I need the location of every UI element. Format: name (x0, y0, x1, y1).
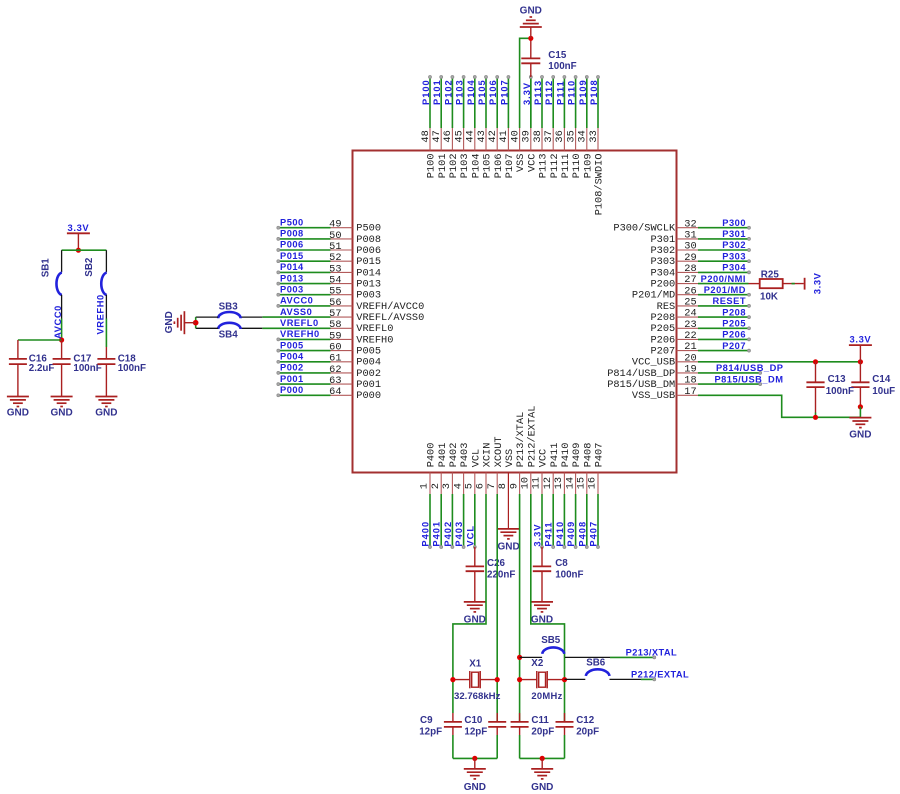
svg-text:28: 28 (684, 263, 696, 275)
svg-text:P206: P206 (650, 334, 675, 346)
svg-text:P105: P105 (482, 154, 494, 179)
svg-text:SB3: SB3 (219, 302, 239, 313)
svg-text:P500: P500 (280, 217, 304, 227)
svg-text:P101: P101 (432, 79, 442, 105)
svg-text:P213/XTAL: P213/XTAL (515, 412, 527, 468)
svg-text:17: 17 (684, 386, 696, 398)
svg-text:P304: P304 (650, 267, 675, 279)
svg-text:P407: P407 (589, 521, 599, 547)
svg-text:P408: P408 (577, 521, 587, 547)
svg-text:P107: P107 (499, 79, 509, 105)
svg-text:P410: P410 (560, 443, 572, 468)
svg-text:5: 5 (464, 483, 476, 489)
svg-text:P402: P402 (448, 443, 460, 468)
svg-text:P403: P403 (454, 521, 464, 547)
svg-text:P302: P302 (650, 245, 675, 257)
svg-text:P112: P112 (544, 80, 554, 105)
svg-text:7: 7 (486, 483, 498, 489)
svg-text:VSS: VSS (515, 154, 527, 173)
svg-text:P109: P109 (578, 79, 588, 105)
svg-text:35: 35 (565, 130, 577, 142)
svg-text:P014: P014 (356, 267, 381, 279)
svg-text:37: 37 (543, 130, 555, 142)
svg-text:25: 25 (684, 297, 696, 309)
svg-text:P110: P110 (571, 154, 583, 179)
svg-text:3: 3 (441, 483, 453, 489)
svg-text:VREFH/AVCC0: VREFH/AVCC0 (356, 301, 424, 313)
svg-text:AVCC0: AVCC0 (53, 305, 63, 339)
svg-text:C8: C8 (555, 558, 568, 569)
svg-text:P003: P003 (280, 284, 304, 294)
svg-text:SB5: SB5 (541, 635, 561, 646)
svg-text:48: 48 (420, 130, 432, 142)
svg-text:GND: GND (849, 430, 871, 441)
svg-text:P014: P014 (280, 262, 304, 272)
svg-text:P103: P103 (455, 79, 465, 105)
svg-text:2: 2 (430, 483, 442, 489)
svg-text:P407: P407 (594, 443, 606, 468)
svg-text:32: 32 (684, 218, 696, 230)
svg-text:P201/MD: P201/MD (632, 290, 675, 302)
svg-text:GND: GND (50, 408, 72, 419)
svg-text:46: 46 (442, 130, 454, 142)
svg-text:41: 41 (498, 130, 510, 142)
svg-text:3.3V: 3.3V (811, 272, 822, 294)
svg-text:21: 21 (684, 341, 696, 353)
svg-text:34: 34 (577, 130, 589, 142)
svg-text:VREFL/AVSS0: VREFL/AVSS0 (356, 312, 424, 324)
svg-text:P000: P000 (280, 385, 304, 395)
svg-text:RESET: RESET (713, 296, 747, 306)
svg-text:P112: P112 (549, 154, 561, 179)
svg-text:47: 47 (431, 130, 443, 142)
svg-text:P013: P013 (280, 273, 304, 283)
svg-text:P402: P402 (443, 521, 453, 547)
svg-text:220nF: 220nF (487, 569, 515, 580)
svg-text:10: 10 (520, 477, 532, 489)
svg-text:VSS: VSS (504, 449, 516, 468)
svg-text:P100: P100 (426, 154, 438, 179)
svg-text:44: 44 (465, 130, 477, 142)
svg-text:VSS_USB: VSS_USB (632, 390, 675, 402)
svg-text:3.3V: 3.3V (68, 222, 90, 233)
svg-text:X2: X2 (531, 658, 544, 669)
svg-text:GND: GND (95, 408, 117, 419)
svg-text:P005: P005 (356, 346, 381, 358)
svg-text:X1: X1 (469, 658, 482, 669)
svg-text:P411: P411 (549, 443, 561, 468)
svg-text:P001: P001 (280, 374, 304, 384)
svg-text:P109: P109 (582, 154, 594, 179)
svg-text:45: 45 (453, 130, 465, 142)
svg-text:XCOUT: XCOUT (493, 436, 505, 467)
svg-text:20pF: 20pF (576, 726, 599, 737)
svg-text:14: 14 (564, 477, 576, 489)
svg-text:43: 43 (476, 130, 488, 142)
svg-text:P303: P303 (650, 256, 675, 268)
svg-text:59: 59 (329, 330, 341, 342)
svg-text:GND: GND (7, 408, 29, 419)
svg-text:C12: C12 (576, 715, 595, 726)
svg-text:P400: P400 (426, 443, 438, 468)
svg-text:64: 64 (329, 386, 341, 398)
svg-text:30: 30 (684, 241, 696, 253)
svg-text:C13: C13 (828, 374, 847, 385)
svg-text:R25: R25 (761, 269, 780, 280)
svg-text:60: 60 (329, 342, 341, 354)
svg-text:VCC: VCC (526, 154, 538, 173)
svg-text:40: 40 (509, 130, 521, 142)
svg-text:C11: C11 (531, 715, 549, 726)
svg-text:100nF: 100nF (555, 569, 583, 580)
svg-text:1: 1 (419, 483, 431, 489)
svg-text:P102: P102 (443, 79, 453, 105)
svg-text:3.3V: 3.3V (850, 333, 872, 344)
svg-text:P008: P008 (280, 229, 304, 239)
svg-text:P409: P409 (571, 443, 583, 468)
svg-text:13: 13 (553, 477, 565, 489)
svg-text:P403: P403 (459, 443, 471, 468)
svg-text:12: 12 (542, 477, 554, 489)
svg-text:P101: P101 (437, 154, 449, 179)
svg-text:RES: RES (657, 301, 676, 313)
svg-text:AVSS0: AVSS0 (280, 307, 312, 317)
svg-text:11: 11 (531, 477, 543, 489)
svg-text:39: 39 (521, 130, 533, 142)
svg-text:P213/XTAL: P213/XTAL (626, 647, 677, 657)
svg-text:36: 36 (554, 130, 566, 142)
svg-text:4: 4 (452, 483, 464, 489)
svg-text:VREFH0: VREFH0 (95, 294, 105, 334)
svg-text:P113: P113 (538, 154, 550, 179)
svg-text:P106: P106 (493, 154, 505, 179)
svg-text:GND: GND (497, 541, 519, 552)
svg-text:8: 8 (497, 483, 509, 489)
svg-text:SB2: SB2 (84, 257, 95, 277)
svg-text:12pF: 12pF (419, 726, 442, 737)
svg-text:24: 24 (684, 308, 696, 320)
svg-text:3.3V: 3.3V (533, 523, 543, 546)
svg-text:20pF: 20pF (531, 726, 554, 737)
svg-text:GND: GND (531, 782, 553, 793)
svg-text:55: 55 (329, 286, 341, 298)
svg-text:P208: P208 (722, 307, 746, 317)
svg-text:33: 33 (588, 130, 600, 142)
svg-text:VCC: VCC (538, 449, 550, 468)
svg-text:P015: P015 (356, 256, 381, 268)
svg-text:P408: P408 (582, 443, 594, 468)
svg-text:P208: P208 (650, 312, 675, 324)
svg-text:P108/SWDIO: P108/SWDIO (594, 154, 606, 216)
svg-text:2.2uF: 2.2uF (29, 363, 55, 374)
svg-text:18: 18 (684, 375, 696, 387)
svg-text:10uF: 10uF (872, 386, 895, 397)
svg-text:P201/MD: P201/MD (704, 285, 746, 295)
svg-text:P212/EXTAL: P212/EXTAL (526, 406, 538, 468)
svg-text:P206: P206 (722, 330, 746, 340)
svg-text:P207: P207 (722, 341, 746, 351)
svg-text:P301: P301 (722, 229, 746, 239)
svg-text:P104: P104 (470, 154, 482, 179)
svg-text:52: 52 (329, 252, 341, 264)
svg-text:GND: GND (464, 782, 486, 793)
svg-text:42: 42 (487, 130, 499, 142)
svg-text:XCIN: XCIN (482, 443, 494, 468)
svg-text:6: 6 (475, 483, 487, 489)
svg-text:P200/NMI: P200/NMI (701, 274, 746, 284)
svg-text:P004: P004 (280, 352, 304, 362)
svg-text:P111: P111 (560, 154, 572, 179)
svg-text:P401: P401 (432, 521, 442, 547)
svg-text:P815/USB_DM: P815/USB_DM (714, 374, 783, 384)
svg-text:P106: P106 (488, 79, 498, 105)
svg-text:P409: P409 (566, 521, 576, 547)
svg-text:SB4: SB4 (219, 329, 239, 340)
svg-text:GND: GND (164, 311, 175, 333)
svg-text:20MHz: 20MHz (531, 690, 562, 701)
svg-text:VREFH0: VREFH0 (356, 334, 393, 346)
svg-text:15: 15 (576, 477, 588, 489)
svg-text:12pF: 12pF (464, 726, 487, 737)
svg-text:P000: P000 (356, 390, 381, 402)
svg-text:P113: P113 (533, 80, 543, 105)
svg-text:100nF: 100nF (118, 363, 146, 374)
svg-text:32.768kHz: 32.768kHz (454, 691, 501, 702)
svg-text:P500: P500 (356, 223, 381, 235)
svg-text:C9: C9 (420, 715, 433, 726)
svg-text:VCL: VCL (470, 449, 482, 468)
svg-text:100nF: 100nF (548, 61, 576, 72)
svg-text:P401: P401 (437, 443, 449, 468)
svg-text:P300: P300 (722, 218, 746, 228)
svg-text:62: 62 (329, 364, 341, 376)
svg-text:P411: P411 (544, 521, 554, 546)
svg-text:P303: P303 (722, 251, 746, 261)
svg-text:P102: P102 (448, 154, 460, 179)
svg-text:P300/SWCLK: P300/SWCLK (613, 223, 676, 235)
svg-text:16: 16 (587, 477, 599, 489)
svg-text:P304: P304 (722, 263, 746, 273)
svg-text:P001: P001 (356, 379, 381, 391)
svg-text:P002: P002 (356, 368, 381, 380)
svg-text:P814/USB_DP: P814/USB_DP (716, 363, 784, 373)
svg-text:P003: P003 (356, 290, 381, 302)
svg-text:P815/USB_DM: P815/USB_DM (607, 379, 675, 391)
svg-text:49: 49 (329, 219, 341, 231)
svg-text:VCL: VCL (465, 525, 475, 547)
svg-text:100nF: 100nF (826, 386, 854, 397)
svg-text:P002: P002 (280, 363, 304, 373)
svg-text:C14: C14 (872, 374, 891, 385)
svg-text:VREFL0: VREFL0 (280, 318, 319, 328)
svg-text:VREFH0: VREFH0 (280, 329, 320, 339)
svg-text:P814/USB_DP: P814/USB_DP (607, 368, 675, 380)
svg-text:P105: P105 (477, 79, 487, 105)
svg-text:P108: P108 (589, 79, 599, 105)
svg-text:P104: P104 (466, 79, 476, 105)
svg-text:P100: P100 (421, 79, 431, 105)
svg-text:P302: P302 (722, 240, 746, 250)
svg-text:19: 19 (684, 364, 696, 376)
svg-text:P006: P006 (280, 240, 304, 250)
svg-text:C10: C10 (464, 715, 483, 726)
svg-text:57: 57 (329, 308, 341, 320)
svg-text:63: 63 (329, 375, 341, 387)
svg-text:51: 51 (329, 241, 341, 253)
svg-text:53: 53 (329, 263, 341, 275)
svg-text:SB1: SB1 (41, 258, 52, 278)
svg-text:C15: C15 (548, 50, 567, 61)
svg-text:P103: P103 (459, 154, 471, 179)
svg-text:38: 38 (532, 130, 544, 142)
svg-text:AVCC0: AVCC0 (280, 296, 313, 306)
svg-text:GND: GND (520, 5, 542, 16)
svg-text:P400: P400 (421, 521, 431, 547)
svg-text:P006: P006 (356, 245, 381, 257)
svg-text:P015: P015 (280, 251, 304, 261)
svg-text:P212/EXTAL: P212/EXTAL (631, 670, 689, 680)
svg-text:26: 26 (684, 285, 696, 297)
svg-text:C26: C26 (487, 558, 506, 569)
svg-text:P107: P107 (504, 154, 516, 179)
svg-text:9: 9 (508, 483, 520, 489)
svg-text:P205: P205 (722, 319, 746, 329)
svg-text:P410: P410 (555, 521, 565, 547)
svg-text:SB6: SB6 (586, 658, 606, 669)
svg-text:P111: P111 (555, 80, 565, 105)
svg-text:56: 56 (329, 297, 341, 309)
svg-text:29: 29 (684, 252, 696, 264)
svg-text:10K: 10K (760, 292, 778, 303)
svg-text:P110: P110 (567, 80, 577, 105)
svg-text:P207: P207 (650, 346, 675, 358)
svg-text:P005: P005 (280, 340, 304, 350)
svg-text:22: 22 (684, 330, 696, 342)
